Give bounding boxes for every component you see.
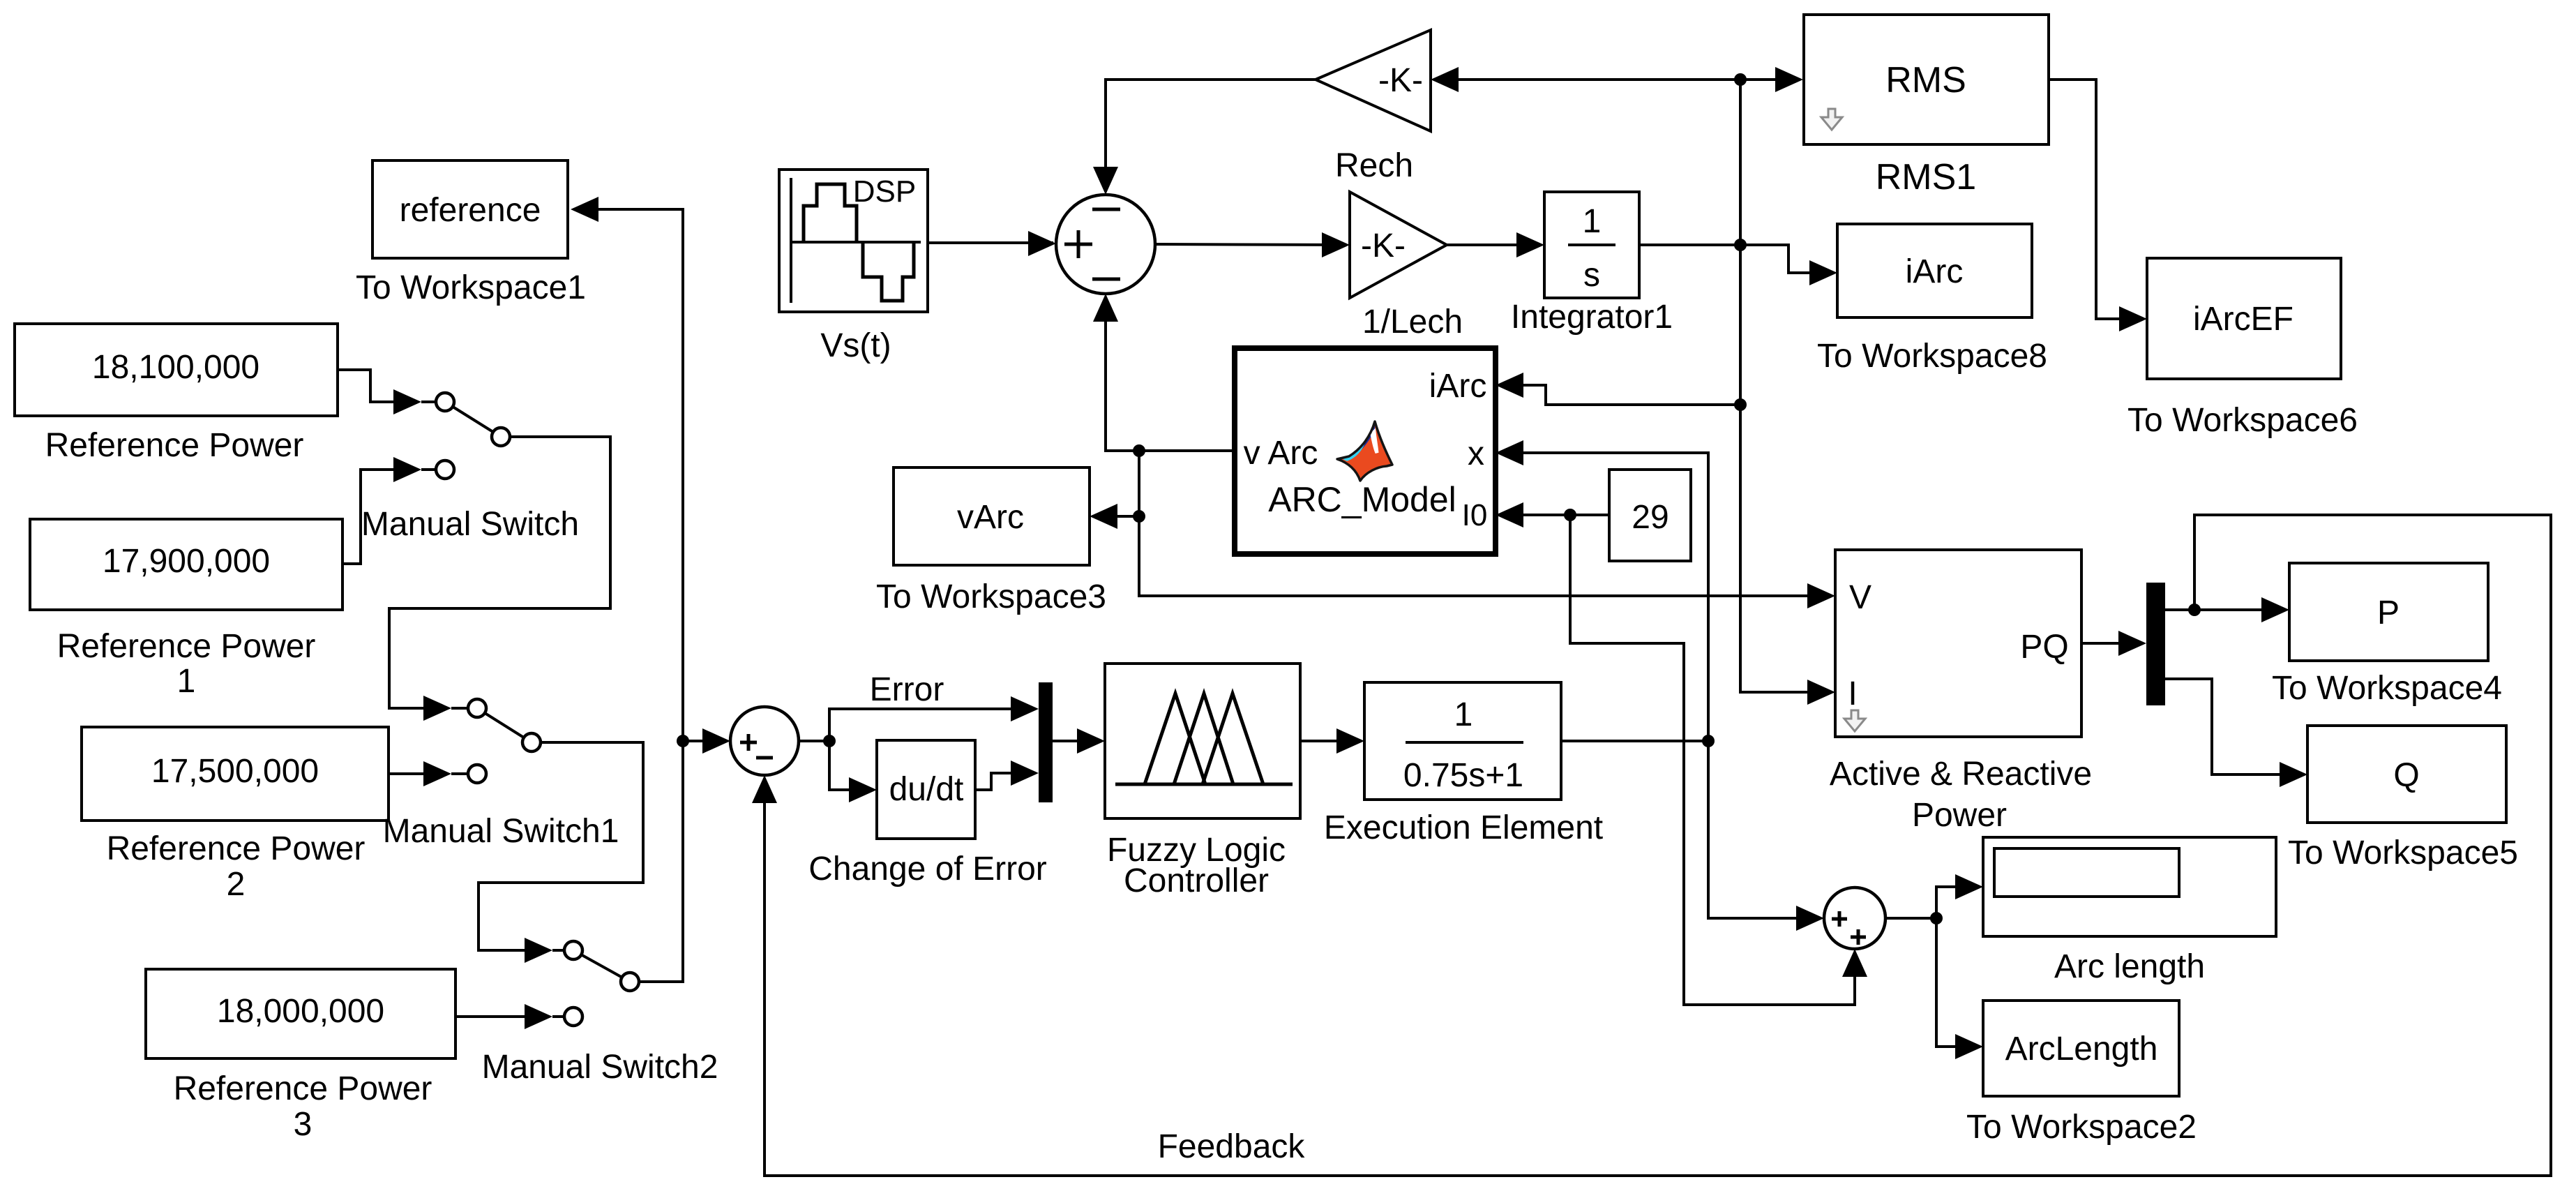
svg-text:0.75s+1: 0.75s+1: [1403, 757, 1523, 794]
block Arc length display: [1983, 837, 2276, 985]
svg-text:To Workspace3: To Workspace3: [876, 578, 1106, 615]
svg-text:18,000,000: 18,000,000: [217, 993, 384, 1030]
svg-text:-K-: -K-: [1361, 227, 1406, 264]
svg-text:17,900,000: 17,900,000: [103, 543, 270, 580]
wire to Arc length display: [1936, 887, 1980, 918]
wire vArc down to scope branch and V input of power block: [1139, 451, 1832, 596]
svg-text:Rech: Rech: [1335, 147, 1413, 184]
block Active & Reactive Power: [1830, 550, 2092, 834]
svg-text:To Workspace1: To Workspace1: [356, 269, 586, 306]
wire into vArc workspace block: [1092, 515, 1139, 518]
svg-text:I: I: [1848, 675, 1857, 712]
arrow into V input of Active Reactive block: [1807, 583, 1835, 608]
node junction on I0 wire: [1564, 509, 1576, 521]
wire fuzzy output to Execution Element: [1300, 740, 1362, 742]
wire 18,100,000 to Manual Switch input 1: [338, 370, 419, 402]
wire 18,000,000 to Manual Switch2 input 2: [455, 1015, 550, 1018]
arrow into Q block: [2280, 762, 2307, 787]
svg-text:1: 1: [177, 663, 196, 700]
svg-text:Controller: Controller: [1124, 862, 1269, 899]
arrow into sum1 left input: [1028, 231, 1056, 256]
arrow into RMS: [1775, 67, 1803, 92]
gain 1/Lech: [1350, 192, 1463, 340]
svg-text:2: 2: [227, 866, 246, 903]
wire x input from execution element junction: [1498, 453, 1708, 738]
svg-text:17,500,000: 17,500,000: [151, 753, 319, 790]
wire iArc net vertical trunk and I input feed: [1740, 80, 1832, 692]
svg-text:Change of Error: Change of Error: [808, 851, 1047, 888]
svg-text:P: P: [2377, 594, 2400, 631]
wire Rech output to sum1 top: [1106, 80, 1316, 192]
arrow into iArcEF: [2119, 306, 2147, 331]
wire sum power output to error junction: [799, 740, 829, 742]
node junction reference/sum feed: [677, 735, 689, 747]
svg-text:Vs(t): Vs(t): [820, 327, 891, 364]
svg-text:ARC_Model: ARC_Model: [1268, 480, 1456, 519]
node vArc junction: [1133, 444, 1145, 457]
wire Vs(t) to sum1: [928, 241, 1053, 244]
wire I0 net down to arc length sum bottom input: [1570, 515, 1855, 1005]
wire du/dt output to mux input 2: [975, 773, 1036, 790]
svg-text:To Workspace5: To Workspace5: [2288, 834, 2518, 871]
wire between Rech input and RMS input: [1433, 78, 1800, 81]
svg-text:Reference Power: Reference Power: [57, 628, 316, 665]
arrow into sum1 bottom input: [1093, 294, 1118, 322]
svg-text:1: 1: [1454, 696, 1473, 733]
mux bar: [1039, 682, 1053, 802]
Manual Switch2: [482, 941, 718, 1086]
wire 17,900,000 to Manual Switch input 2: [342, 470, 419, 564]
gain Rech: [1316, 30, 1431, 184]
svg-text:x: x: [1468, 435, 1484, 472]
svg-text:Reference Power: Reference Power: [107, 830, 366, 867]
svg-text:RMS: RMS: [1885, 60, 1966, 100]
MATLAB logo inside ARC_Model: [1337, 421, 1392, 481]
svg-text:DSP: DSP: [853, 174, 916, 209]
wire I0 input from constant 29: [1498, 514, 1609, 516]
wire branch down to du/dt: [829, 741, 874, 790]
block Execution Element 1/(0.75s+1): [1324, 682, 1603, 846]
arrow into I input of Active Reactive block: [1807, 680, 1835, 705]
wire demux output2 to Q workspace: [2165, 679, 2305, 774]
arrow Manual Switch2 input 1: [525, 938, 552, 963]
arrow into Arc length display: [1955, 874, 1983, 899]
node junction arc length: [1930, 912, 1943, 924]
svg-text:s: s: [1583, 257, 1600, 294]
arrow into P block: [2261, 597, 2289, 622]
node iArc junction top at Rech/RMS wire: [1734, 73, 1747, 86]
node junction P / feedback: [2188, 604, 2201, 616]
svg-text:iArc: iArc: [1906, 253, 1964, 290]
arrow into ARC_Model x port: [1496, 440, 1523, 465]
arrow into mux input 2: [1011, 761, 1039, 786]
wire 17,500,000 to Manual Switch1 input 2: [389, 772, 449, 775]
svg-text:Execution Element: Execution Element: [1324, 809, 1603, 846]
Manual Switch1: [383, 699, 619, 850]
wire Error branch to mux input 1: [829, 709, 1036, 741]
svg-text:3: 3: [294, 1106, 312, 1143]
block iArcEF (To Workspace6): [2127, 258, 2358, 439]
block iArc (To Workspace8): [1817, 224, 2047, 375]
svg-text:Reference Power: Reference Power: [45, 427, 304, 464]
svg-text:To Workspace4: To Workspace4: [2272, 670, 2502, 707]
block vArc (To Workspace3): [876, 467, 1106, 615]
arrow Manual Switch2 input 2: [525, 1004, 552, 1029]
arrow into ARC_Model I0 port: [1496, 502, 1523, 527]
sum2 arc length summing junction (+ +): [1824, 888, 1885, 949]
svg-text:iArc: iArc: [1429, 368, 1487, 405]
arrow into du/dt: [849, 777, 877, 802]
svg-text:-K-: -K-: [1378, 62, 1423, 99]
arrow into sum2 bottom input: [1842, 949, 1867, 977]
node iArc junction to ARC model: [1734, 398, 1747, 411]
block du/dt Change of Error: [808, 740, 1047, 888]
svg-text:To Workspace6: To Workspace6: [2127, 402, 2358, 439]
wire demux output1 to P workspace: [2165, 608, 2287, 611]
node error junction: [823, 735, 836, 747]
wire to ArcLength workspace: [1936, 918, 1980, 1047]
svg-text:v Arc: v Arc: [1244, 435, 1318, 472]
arrow into vArc workspace block: [1090, 504, 1117, 529]
block Fuzzy Logic Controller: [1105, 664, 1300, 899]
block ARC_Model subsystem: [1235, 348, 1496, 554]
svg-text:reference: reference: [400, 192, 541, 229]
svg-text:RMS1: RMS1: [1876, 157, 1976, 197]
svg-text:iArcEF: iArcEF: [2193, 301, 2293, 338]
wire Integrator1 output iArc net: [1639, 244, 1740, 246]
svg-text:Arc length: Arc length: [2054, 948, 2205, 985]
wire vArc output of ARC_Model to sum1 bottom: [1106, 297, 1235, 451]
svg-text:PQ: PQ: [2020, 629, 2068, 666]
wire sum2 output junction: [1885, 917, 1936, 920]
arrow Manual Switch input 1: [393, 389, 421, 414]
block Integrator1 1/s: [1511, 192, 1673, 336]
arrow into Rech right edge: [1431, 67, 1459, 92]
block Reference Power 2 constant 17,500,000: [82, 727, 389, 903]
arrow into demux: [2118, 631, 2146, 656]
arrow into mux input 1: [1011, 696, 1039, 721]
svg-text:Feedback: Feedback: [1158, 1128, 1306, 1165]
svg-text:vArc: vArc: [957, 499, 1024, 536]
svg-text:1/Lech: 1/Lech: [1362, 304, 1463, 340]
svg-text:To Workspace8: To Workspace8: [1817, 338, 2047, 375]
svg-text:1: 1: [1583, 203, 1602, 240]
svg-text:Reference Power: Reference Power: [174, 1070, 432, 1107]
arrow into 1/Lech: [1322, 232, 1350, 257]
svg-text:29: 29: [1632, 499, 1669, 536]
arrow into iArc workspace block: [1809, 260, 1837, 285]
svg-text:du/dt: du/dt: [889, 771, 964, 808]
arrow into Fuzzy Logic Controller: [1077, 728, 1105, 754]
block reference (To Workspace1): [356, 160, 586, 306]
wire down to sum2 left input: [1708, 741, 1821, 918]
arrow into ARC_Model iArc port: [1496, 373, 1523, 398]
wire PQ output to demux: [2081, 642, 2144, 645]
svg-text:Error: Error: [870, 671, 944, 708]
block RMS: [1804, 15, 2049, 197]
arrow into ArcLength workspace: [1955, 1034, 1983, 1059]
arrow into reference block: [571, 197, 598, 222]
wire Manual Switch output down to Manual Switch1 input 1: [389, 437, 610, 708]
svg-text:18,100,000: 18,100,000: [92, 349, 259, 386]
block Reference Power 1 constant 17,900,000: [30, 519, 342, 700]
block Reference Power constant 18,100,000: [15, 324, 338, 464]
wire Manual Switch1 output down to Manual Switch2 input 1: [479, 742, 643, 950]
svg-text:Manual Switch1: Manual Switch1: [383, 813, 619, 850]
arrow into Integrator1: [1516, 232, 1544, 257]
arrow into power sum: [702, 728, 730, 754]
svg-text:Manual Switch: Manual Switch: [361, 506, 579, 543]
block Vs(t) DSP sine source: [779, 170, 928, 364]
wire 1/Lech output to Integrator1: [1447, 244, 1542, 246]
svg-text:To Workspace2: To Workspace2: [1966, 1109, 2197, 1146]
wire feedback loop from P junction around to power sum bottom: [764, 515, 2551, 1176]
wire RMS output to iArcEF: [2049, 80, 2144, 319]
svg-text:I0: I0: [1462, 498, 1488, 532]
wire sum1 output to 1/Lech: [1155, 244, 1347, 245]
wire from Manual Switch2 output up to reference and sum junction: [573, 209, 683, 982]
svg-text:Integrator1: Integrator1: [1511, 299, 1673, 336]
sum power control (+ -): [730, 707, 799, 775]
arrow into sum1 top input: [1093, 167, 1118, 195]
svg-text:ArcLength: ArcLength: [2005, 1031, 2158, 1068]
block P (To Workspace4): [2272, 563, 2502, 707]
wire iArc net step to To Workspace8: [1740, 245, 1835, 273]
wire mux output to fuzzy controller: [1053, 740, 1102, 742]
sum1 voltage summing junction: [1056, 195, 1155, 294]
arrow Manual Switch input 2: [393, 457, 421, 482]
Manual Switch: [361, 393, 579, 543]
svg-text:V: V: [1849, 579, 1871, 616]
svg-text:Manual Switch2: Manual Switch2: [482, 1049, 718, 1086]
node junction to vArc workspace: [1133, 510, 1145, 523]
demux bar: [2146, 583, 2165, 705]
svg-text:Active & Reactive: Active & Reactive: [1830, 756, 2092, 793]
arrow Manual Switch1 input 2: [423, 761, 451, 786]
arrow into Execution Element: [1336, 728, 1364, 754]
wire junction to power sum left input: [683, 740, 728, 742]
svg-text:Power: Power: [1912, 797, 2007, 834]
arrow into power sum bottom input: [752, 775, 777, 803]
node iArc junction on integrator output: [1734, 239, 1747, 251]
node junction execution element output: [1702, 735, 1715, 747]
block ArcLength (To Workspace2): [1966, 1001, 2197, 1146]
wire Execution Element output: [1561, 740, 1708, 742]
block constant 29: [1609, 470, 1691, 561]
block Reference Power 3 constant 18,000,000: [146, 969, 455, 1143]
arrow Manual Switch1 input 1: [423, 696, 451, 721]
svg-text:Q: Q: [2393, 757, 2419, 794]
arrow into sum2 left input: [1796, 906, 1824, 931]
block Q (To Workspace5): [2288, 726, 2518, 871]
wire iArc to ARC_Model iArc input: [1498, 385, 1740, 405]
